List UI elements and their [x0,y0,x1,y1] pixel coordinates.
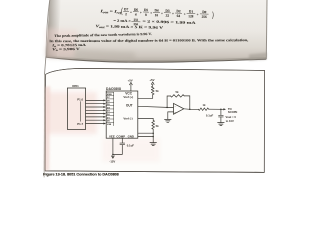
svg-text:5k: 5k [176,90,179,94]
svg-text:+: + [150,11,152,15]
svg-text:16: 16 [155,13,159,17]
svg-text:0.1uF: 0.1uF [127,143,135,147]
svg-text:= 2 mA ×: = 2 mA × [113,19,131,23]
page background [0,0,320,180]
frame bottom border emphasis [45,171,264,172]
svg-text:1k: 1k [203,103,206,107]
svg-text:32: 32 [166,14,170,18]
darker shadow wedge lower-left [46,47,135,61]
svg-text:COMP: COMP [116,135,125,139]
equation Vout line [95,24,163,30]
svg-text:D0: D0 [202,10,207,14]
figure frame [45,68,264,172]
svg-text:+: + [130,10,132,14]
equation Iout line [99,7,214,20]
wire P1.4 to DAC [86,113,104,115]
microcontroller 8051 [67,88,85,129]
junction node [166,107,168,109]
svg-text:5k: 5k [156,124,159,128]
wire P1.6 to DAC [86,119,104,121]
wire GND pins to node [138,132,153,134]
pink tint lower-left of text block [46,28,78,58]
svg-text:256: 256 [202,15,208,19]
svg-text:P1.7: P1.7 [77,122,83,126]
wire P1.2 to DAC [86,106,104,108]
capacitor 0.1uF (COMP) [121,138,123,143]
scanned text block (top) [46,0,267,62]
-12V supply arrow [112,156,115,158]
svg-text:-12V: -12V [109,160,115,164]
bottom shadow edge of text block [46,57,266,62]
page edge below frame [43,75,46,178]
pink tint left band of figure [44,86,50,171]
svg-text:+: + [161,11,163,15]
+5V supply arrow (Vref+) [151,82,154,84]
wire VCC to +5V [130,85,132,91]
spine shadow left [46,0,61,57]
DAC0808 U1 [106,91,138,138]
wire + input to ground [168,112,174,119]
frame top border emphasis [46,68,265,74]
wire to scope [209,108,224,110]
equation 2mA line [113,17,196,28]
svg-text:D3: D3 [165,9,170,13]
svg-text:Vref (+): Vref (+) [123,95,133,99]
svg-text:D1: D1 [189,10,194,14]
svg-text:DAC0808: DAC0808 [106,87,121,91]
svg-text:Vout = 0: Vout = 0 [226,115,237,119]
svg-text:LSB: LSB [107,124,112,126]
resistor 5k (Vref-) [152,120,155,129]
svg-text:Figure 13-18. 8051 Connection: Figure 13-18. 8051 Connection to DAC0808 [43,173,119,177]
svg-text:8051: 8051 [72,84,79,88]
svg-text:MSB: MSB [107,94,112,96]
svg-text:+: + [140,11,142,15]
feedback wire [167,96,170,107]
svg-text:P1.0: P1.0 [77,97,83,101]
output wire [184,108,199,111]
ground (op-amp +) [165,118,172,120]
corner shadow right end [249,53,267,61]
svg-text:0.1uF: 0.1uF [206,113,214,117]
svg-text:Vref (-): Vref (-) [123,116,132,120]
page edge in gap [45,57,46,75]
wire OUT to op-amp [138,106,174,107]
paragraph text [49,32,248,52]
input pin cells [113,92,115,126]
svg-text:-: - [175,105,176,109]
capacitor 0.1uF (output) [220,109,222,115]
svg-text:SCOPE: SCOPE [228,110,238,114]
wire P1.5 to DAC [86,116,104,118]
svg-text:+5V: +5V [149,78,154,82]
ground (Vref- node) [150,142,157,144]
wire P1.3 to DAC [86,109,104,111]
wire P1.7 to DAC [86,123,104,125]
svg-text:5k: 5k [156,89,159,93]
svg-text:GND: GND [128,135,134,139]
resistor 1k [198,108,208,111]
wire P1.0 to DAC [86,99,104,101]
svg-text:D2: D2 [176,9,181,13]
svg-text:D6: D6 [134,8,139,12]
svg-text:D5: D5 [144,8,149,12]
svg-text:+: + [197,13,199,17]
svg-text:OUT: OUT [126,104,133,108]
svg-text:+: + [184,12,186,16]
resistor 5k feedback [171,95,185,98]
svg-text:128: 128 [188,14,194,18]
wire VEE to -12V [112,138,114,157]
svg-text:+5V: +5V [128,79,133,83]
right edge faint [265,0,268,59]
svg-text:+: + [172,12,174,16]
port range line [80,102,82,122]
wire P1.1 to DAC [86,103,104,105]
svg-text:64: 64 [177,14,181,18]
svg-text:D4: D4 [154,8,159,12]
svg-text:D7: D7 [124,7,129,11]
wire Vref(+) [138,95,153,99]
+5V supply arrow (VCC) [130,82,133,84]
pink wash over 8051 area [47,92,97,134]
wire Vref(-) [138,118,153,120]
svg-text:to 10V: to 10V [226,119,234,123]
resistor 5k (Vref+) [151,86,154,94]
svg-text:VEE: VEE [109,135,115,139]
op-amp [174,103,184,114]
ground (output cap) [218,122,225,124]
